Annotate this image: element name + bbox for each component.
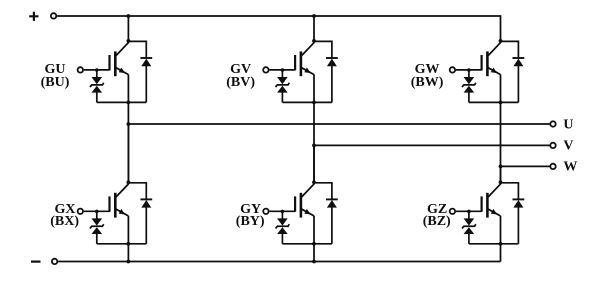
wire: anode of D4 to emitter rail of Q4: [145, 207, 147, 243]
gate terminal circle GW: [450, 67, 455, 72]
wire: top rail down to collector of Q2: [313, 16, 315, 43]
junction: emitter tie / leg of Q4: [126, 242, 130, 246]
svg-text:(BX): (BX): [50, 214, 79, 229]
junction: bottom rail / Y-leg emitter: [312, 260, 316, 264]
wire: emitter of Q4 down the leg: [127, 216, 129, 262]
wire: collector branch to cathode of D1: [128, 41, 146, 57]
junction: collector node of Q5 and D5: [312, 180, 316, 184]
wire: gate lead of Q2: [269, 69, 295, 71]
wire: collector branch to cathode of D3: [501, 41, 519, 57]
junction: collector node of Q2 and D2: [312, 39, 316, 43]
junction: bottom rail / X-leg emitter: [126, 260, 130, 264]
top rail (+) bus wire: [57, 16, 500, 43]
positive supply terminal P (+): [29, 12, 56, 21]
junction: phase W node: [499, 165, 503, 169]
IGBT Q4: [110, 184, 129, 218]
junction: emitter tie / leg of Q6: [499, 242, 503, 246]
wire: phase V output line: [314, 144, 550, 146]
wire: collector branch to cathode of D2: [314, 41, 332, 57]
wire: gate lead of Q3: [456, 69, 482, 71]
svg-text:W: W: [563, 159, 577, 174]
gate protection diode Z1 (back-to-back zener): [90, 70, 104, 102]
junction: emitter tie / leg of Q2: [312, 101, 316, 105]
junction: emitter tie / leg of Q1: [126, 101, 130, 105]
wire: emitter bottom tie of Q6: [469, 243, 519, 245]
wire: collector branch to cathode of D5: [314, 183, 332, 199]
wire: emitter bottom tie of Q1: [97, 101, 147, 103]
gate terminal circle GZ: [450, 209, 455, 214]
free-wheel diode D5: [326, 199, 338, 207]
wire: gate lead of Q5: [269, 210, 295, 212]
junction: gate lead / protection diode Z6: [467, 210, 471, 214]
gate protection diode Z5 (back-to-back zener): [276, 211, 290, 243]
wire: emitter bottom tie of Q3: [469, 101, 519, 103]
wire: top rail down to collector of Q1: [127, 16, 129, 43]
wire: emitter of Q3 down the leg: [500, 74, 502, 184]
wire: emitter of Q2 down the leg: [313, 74, 315, 184]
wire: anode of D1 to emitter rail of Q1: [145, 66, 147, 102]
negative supply terminal N (-): [31, 259, 57, 264]
free-wheel diode D1: [140, 58, 152, 66]
svg-text:(BY): (BY): [236, 214, 265, 229]
wire: phase node down to collector of Q4: [127, 124, 129, 184]
IGBT Q1: [110, 42, 129, 76]
gate terminal circle GY: [263, 209, 268, 214]
gate protection diode Z6 (back-to-back zener): [462, 211, 476, 243]
gate protection diode Z3 (back-to-back zener): [462, 70, 476, 102]
svg-text:(BZ): (BZ): [423, 214, 451, 229]
output terminal circle W: [550, 164, 555, 169]
wire: gate lead of Q6: [456, 210, 482, 212]
gate terminal circle GV: [263, 67, 268, 72]
bottom rail (-) bus wire: [58, 261, 500, 263]
svg-text:(BW): (BW): [411, 75, 444, 90]
wire: gate lead of Q1: [84, 69, 110, 71]
wire: phase node down to collector of Q5: [313, 145, 315, 184]
svg-text:V: V: [563, 138, 573, 153]
junction: collector node of Q4 and D4: [126, 180, 130, 184]
svg-text:(BU): (BU): [41, 75, 70, 90]
junction: gate lead / protection diode Z4: [95, 210, 99, 214]
junction: emitter tie / leg of Q3: [499, 101, 503, 105]
gate protection diode Z4 (back-to-back zener): [90, 211, 104, 243]
free-wheel diode D3: [513, 58, 525, 66]
free-wheel diode D4: [140, 199, 152, 207]
junction: gate lead / protection diode Z5: [281, 210, 285, 214]
junction: gate lead / protection diode Z2: [281, 68, 285, 72]
junction: top rail to V-leg collector: [312, 14, 316, 18]
junction: gate lead / protection diode Z1: [95, 68, 99, 72]
wire: emitter of Q5 down the leg: [313, 216, 315, 262]
gate protection diode Z2 (back-to-back zener): [276, 70, 290, 102]
wire: emitter of Q6 down the leg: [500, 216, 502, 262]
junction: phase U node: [126, 122, 130, 126]
wire: anode of D3 to emitter rail of Q3: [517, 66, 519, 102]
output terminal circle V: [550, 143, 555, 148]
wire: phase W output line: [501, 165, 551, 167]
junction: collector node of Q3 and D3: [499, 39, 503, 43]
free-wheel diode D2: [326, 58, 338, 66]
gate terminal circle GU: [78, 67, 83, 72]
wire: emitter bottom tie of Q2: [282, 101, 332, 103]
junction: emitter tie / leg of Q5: [312, 242, 316, 246]
output terminal circle U: [550, 121, 555, 126]
wire: gate lead of Q4: [84, 210, 110, 212]
free-wheel diode D6: [513, 199, 525, 207]
wire: phase node down to collector of Q6: [500, 166, 502, 184]
IGBT Q3: [482, 42, 501, 76]
gate terminal circle GX: [78, 209, 83, 214]
junction: phase V node: [312, 144, 316, 148]
junction: gate lead / protection diode Z3: [467, 68, 471, 72]
wire: collector branch to cathode of D6: [501, 183, 519, 199]
wire: emitter of Q1 down the leg: [127, 74, 129, 184]
wire: anode of D5 to emitter rail of Q5: [331, 207, 333, 243]
wire: collector branch to cathode of D4: [128, 183, 146, 199]
IGBT Q6: [482, 184, 501, 218]
junction: collector node of Q6 and D6: [499, 180, 503, 184]
junction: collector node of Q1 and D1: [126, 39, 130, 43]
wire: anode of D2 to emitter rail of Q2: [331, 66, 333, 102]
IGBT Q2: [295, 42, 314, 76]
junction: top rail to U-leg collector: [126, 14, 130, 18]
svg-text:U: U: [563, 117, 573, 132]
wire: emitter bottom tie of Q4: [97, 243, 147, 245]
wire: anode of D6 to emitter rail of Q6: [517, 207, 519, 243]
wire: phase U output line: [128, 123, 550, 125]
svg-text:(BV): (BV): [226, 75, 255, 90]
IGBT Q5: [295, 184, 314, 218]
wire: emitter bottom tie of Q5: [282, 243, 332, 245]
